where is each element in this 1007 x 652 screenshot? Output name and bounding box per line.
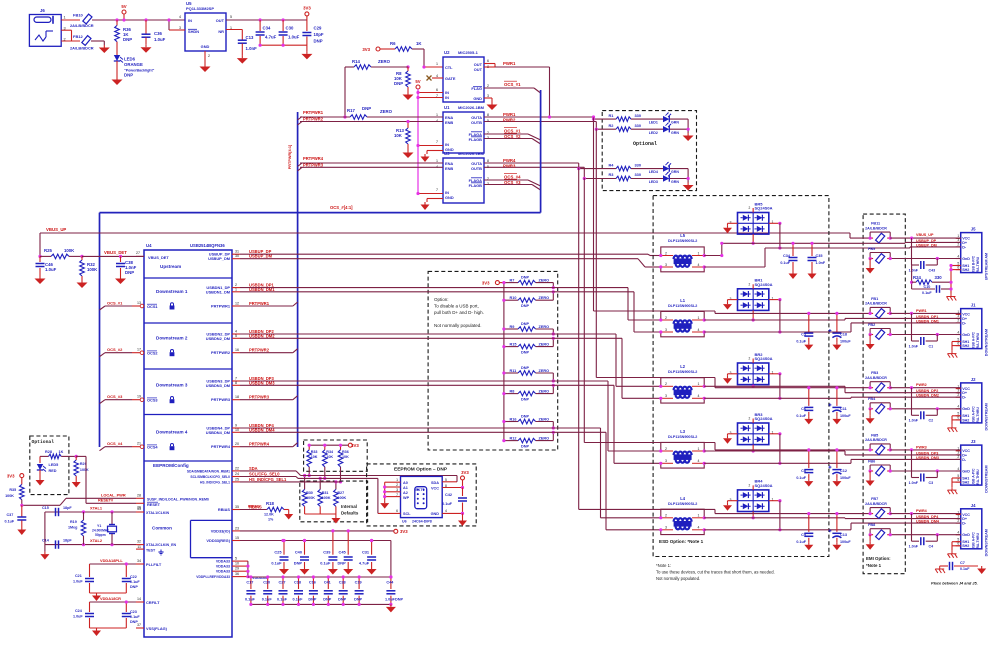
- wire PWR4 to VCC: [890, 512, 961, 515]
- junction C38: [119, 255, 122, 258]
- junction CTL: [406, 65, 425, 68]
- capacitor C39: [320, 529, 337, 566]
- hub pin 7 USBDN3_DP: [206, 376, 274, 384]
- svg-text:DNP: DNP: [125, 270, 134, 275]
- svg-text:11: 11: [137, 545, 141, 549]
- svg-text:R6: R6: [390, 41, 396, 46]
- svg-text:C41: C41: [324, 581, 331, 585]
- power 3V3 vdd33: [394, 529, 408, 534]
- svg-text:LED3: LED3: [649, 180, 658, 184]
- svg-text:L4: L4: [680, 496, 686, 501]
- svg-text:1.0nF: 1.0nF: [909, 419, 919, 423]
- wire D- row J2: [704, 397, 961, 398]
- svg-text:0.1uF: 0.1uF: [320, 561, 331, 566]
- svg-text:C45: C45: [339, 550, 347, 555]
- gnd rail 100K: [305, 514, 336, 516]
- hub pin 33 XTAL1: [136, 507, 169, 515]
- wire U3 OUTA PWR4: [484, 158, 579, 163]
- capacitor C30: [279, 20, 300, 45]
- wire R6 to CTL: [412, 49, 443, 67]
- wire U3 OUTB PWR3: [484, 163, 584, 168]
- ground U5: [200, 64, 211, 72]
- hub pin 34 PLLFILT: [136, 559, 162, 567]
- ground pll: [92, 593, 101, 601]
- svg-text:20: 20: [235, 442, 239, 446]
- svg-text:U4: U4: [146, 243, 152, 248]
- ferrite bead FB11 loop: [865, 222, 892, 243]
- svg-text:Place between J4 and J5.: Place between J4 and J5.: [931, 581, 978, 586]
- svg-text:L2: L2: [680, 364, 686, 369]
- svg-text:8: 8: [487, 113, 489, 117]
- bypass rail bottom: [251, 603, 391, 605]
- svg-text:FB12: FB12: [73, 34, 84, 39]
- ground C8: [804, 479, 813, 487]
- svg-text:10K: 10K: [342, 455, 349, 459]
- svg-text:J4: J4: [971, 503, 976, 508]
- svg-text:8: 8: [487, 159, 489, 163]
- hub pin 5 VDDA33a: [216, 557, 240, 564]
- svg-text:RA-THRU: RA-THRU: [976, 256, 980, 272]
- capacitor C13 100uF: [828, 512, 851, 544]
- ground C42: [458, 518, 467, 526]
- svg-text:10K: 10K: [394, 133, 403, 138]
- svg-text:DNP: DNP: [521, 275, 529, 279]
- svg-text:TEST: TEST: [146, 549, 156, 553]
- capacitor C44 bypass: [385, 575, 396, 606]
- svg-text:1.0nF: 1.0nF: [909, 268, 919, 272]
- svg-text:100uF: 100uF: [840, 476, 851, 480]
- svg-text:A2: A2: [403, 491, 408, 495]
- capacitor C46: [36, 256, 57, 276]
- inductor L5 DLP11SN900SL2: [659, 233, 706, 272]
- svg-text:OCS_#4: OCS_#4: [504, 175, 521, 180]
- svg-text:330: 330: [935, 275, 943, 280]
- svg-text:XTAL2: XTAL2: [90, 538, 103, 543]
- svg-text:GnD: GnD: [962, 333, 970, 337]
- svg-text:1: 1: [64, 16, 66, 20]
- svg-text:USB A-P/C: USB A-P/C: [972, 331, 976, 349]
- svg-text:Optional: Optional: [633, 141, 657, 147]
- svg-text:RA-THRU: RA-THRU: [976, 469, 980, 485]
- svg-text:R25: R25: [44, 248, 52, 253]
- wire D- row J4: [704, 523, 961, 530]
- ground TEST glyph: [158, 550, 163, 556]
- svg-text:0.1uF: 0.1uF: [796, 540, 806, 544]
- wire CRFILT: [90, 596, 137, 602]
- svg-text:LOCAL_PWR: LOCAL_PWR: [101, 493, 126, 498]
- wire IN-SHDN tie: [167, 18, 185, 30]
- svg-text:2: 2: [957, 319, 959, 323]
- svg-text:24C64-DIP8: 24C64-DIP8: [412, 520, 432, 524]
- svg-text:1: 1: [436, 159, 438, 163]
- junction R32: [80, 255, 83, 258]
- capacitor C11 100uF: [828, 386, 851, 418]
- bus entry PRTPWR2 hub: [240, 349, 298, 353]
- hub pin 24 SCL: [190, 472, 280, 480]
- wire PWR2 approach: [596, 378, 870, 388]
- svg-text:17: 17: [137, 348, 141, 352]
- ground C38: [115, 276, 126, 284]
- wire D- row J3: [704, 459, 961, 463]
- svg-text:2A/LB/BDCR: 2A/LB/BDCR: [865, 438, 887, 442]
- ground FB2: [866, 342, 875, 350]
- svg-text:16: 16: [235, 348, 239, 352]
- svg-text:2: 2: [749, 483, 751, 487]
- svg-text:28: 28: [137, 493, 141, 497]
- wire FB9 ground: [869, 259, 871, 266]
- capacitor C9: [796, 512, 813, 544]
- capacitor C44 extra DNP label: [395, 597, 403, 601]
- capacitor C20 bypass: [262, 575, 273, 606]
- svg-text:1: 1: [698, 447, 700, 451]
- svg-text:5: 5: [235, 334, 237, 338]
- hub pin 29 VDDA33c: [216, 567, 240, 574]
- capacitor C1: [909, 337, 934, 348]
- svg-text:100K: 100K: [306, 496, 315, 500]
- wire USBDN_DP1 route: [240, 288, 661, 320]
- connector J3: [956, 439, 989, 493]
- capacitor C31: [359, 539, 376, 567]
- resistor R27 100K: [334, 480, 347, 514]
- svg-text:OCS_#2: OCS_#2: [504, 134, 521, 139]
- wire U1 GND: [427, 151, 443, 155]
- svg-text:R1: R1: [609, 113, 615, 118]
- svg-text:2: 2: [749, 357, 751, 361]
- svg-text:R11: R11: [510, 369, 517, 373]
- svg-text:0.1uF: 0.1uF: [780, 261, 790, 265]
- svg-text:DNP: DNP: [294, 561, 303, 566]
- svg-text:3: 3: [730, 498, 732, 502]
- svg-text:ZERO: ZERO: [539, 417, 550, 421]
- svg-text:0.1uF: 0.1uF: [277, 597, 288, 601]
- svg-text:23: 23: [235, 526, 239, 530]
- power switch U1 MIC2026-1BM: [436, 105, 489, 153]
- wire PWR3 approach: [584, 443, 870, 450]
- svg-text:SQ24S0A: SQ24S0A: [755, 206, 773, 211]
- svg-text:R4: R4: [609, 162, 615, 167]
- capacitor C34: [256, 20, 277, 45]
- wire SKT1 SCL: [378, 478, 401, 513]
- wire PWR2 vertical: [595, 128, 597, 377]
- svg-text:0.1uF: 0.1uF: [5, 520, 15, 524]
- svg-text:C39: C39: [323, 550, 331, 555]
- wire XTAL1 row: [45, 506, 136, 513]
- svg-text:To disable a USB port,: To disable a USB port,: [434, 304, 479, 309]
- wire USBDN_DM2 route: [240, 338, 661, 398]
- svg-text:U2: U2: [444, 50, 450, 55]
- connector J1: [956, 303, 989, 357]
- svg-text:C34: C34: [263, 26, 271, 31]
- wire VBUS_UP: [40, 227, 850, 256]
- svg-text:OCS_#[4:1]: OCS_#[4:1]: [330, 205, 353, 210]
- svg-text:4: 4: [445, 509, 447, 513]
- wire BR3 ground: [723, 434, 738, 444]
- svg-text:Defaults: Defaults: [341, 511, 359, 516]
- svg-text:C21: C21: [75, 574, 82, 578]
- wire SKT1 SDA: [442, 476, 457, 482]
- svg-text:pull both D+ and D- high.: pull both D+ and D- high.: [434, 310, 484, 315]
- svg-text:2: 2: [749, 417, 751, 421]
- svg-text:Y1: Y1: [97, 524, 101, 528]
- svg-text:A0: A0: [403, 481, 408, 485]
- wire PWR4 approach: [579, 509, 870, 513]
- svg-text:USBDN2_DM: USBDN2_DM: [206, 336, 230, 341]
- ferrite bead FB6 loop: [868, 459, 892, 476]
- svg-text:36: 36: [235, 572, 239, 576]
- svg-text:3: 3: [730, 371, 732, 375]
- ESD array BR3 SQ24S0A: [730, 412, 774, 445]
- svg-text:18pF: 18pF: [63, 506, 72, 510]
- wire PWR1 approach: [594, 311, 871, 313]
- ground C31: [367, 567, 377, 575]
- resistor R16: [502, 414, 555, 429]
- resistor R7: [502, 275, 555, 289]
- resistor R30 100K: [302, 474, 315, 514]
- svg-text:3: 3: [665, 526, 667, 530]
- svg-text:R27: R27: [337, 491, 344, 495]
- ferrite bead FB9 loop: [868, 247, 892, 264]
- wires SKT1 address pins: [383, 482, 400, 500]
- wire XTAL2 row: [45, 538, 136, 545]
- resistor R18 RBIAS: [240, 501, 289, 522]
- svg-text:3: 3: [957, 314, 959, 318]
- wire PWR1 to VCC: [890, 312, 961, 315]
- svg-text:R7: R7: [510, 278, 515, 282]
- svg-text:5: 5: [235, 557, 237, 561]
- svg-text:C44: C44: [386, 581, 394, 585]
- svg-text:RBIAS: RBIAS: [248, 505, 260, 509]
- capacitor C6: [796, 386, 813, 418]
- hub pin 21 OCS4: [132, 442, 174, 451]
- svg-text:IN: IN: [445, 95, 449, 100]
- wire BR4 ground: [723, 501, 738, 511]
- capacitor C5: [796, 312, 813, 344]
- ground C40: [300, 567, 310, 575]
- capacitor C41 bypass: [323, 575, 333, 606]
- wire GnD net J5: [890, 238, 961, 265]
- EEPROM option dashed box: [367, 464, 477, 526]
- svg-text:C18: C18: [840, 333, 847, 337]
- ESD array BR5 SQ24S0A: [730, 201, 774, 234]
- ferrite bead FB10: [70, 13, 94, 29]
- svg-text:USB B-P/C: USB B-P/C: [972, 255, 976, 273]
- svg-text:2: 2: [665, 251, 667, 255]
- svg-text:PWR2: PWR2: [503, 118, 516, 123]
- hub pin 36 VDDPLLREF: [196, 572, 240, 579]
- wire FB12 to gnd rail: [91, 41, 104, 45]
- svg-text:C1: C1: [929, 344, 934, 348]
- ESD array BR4 SQ24S0A: [730, 479, 774, 512]
- hub pin 1 USBDN1_DM: [206, 287, 275, 295]
- svg-text:RA-THRU: RA-THRU: [976, 332, 980, 348]
- svg-text:DLP11SN900SL2: DLP11SN900SL2: [668, 502, 697, 506]
- svg-text:DNP: DNP: [130, 585, 138, 589]
- svg-text:1: 1: [698, 251, 700, 255]
- svg-text:1Meg: 1Meg: [68, 526, 77, 530]
- resistor R3 + LED3: [609, 172, 689, 184]
- svg-text:33: 33: [137, 507, 141, 511]
- svg-text:MIC2026-1BM: MIC2026-1BM: [458, 151, 485, 156]
- svg-text:7: 7: [436, 188, 438, 192]
- wire PWR2 jog: [595, 122, 616, 131]
- svg-text:U1: U1: [444, 105, 450, 110]
- hub pin 10 VDDA33b: [216, 562, 240, 569]
- svg-text:PRTPWR1: PRTPWR1: [211, 304, 231, 309]
- wire GnD net J3: [890, 450, 961, 478]
- wire PRTPWR4 row: [300, 156, 443, 163]
- chassis C7: [935, 566, 945, 573]
- svg-text:ENB: ENB: [445, 120, 453, 125]
- bus PRTPWR[4:1]: [288, 112, 298, 447]
- svg-text:J1: J1: [971, 303, 976, 308]
- svg-text:25: 25: [235, 477, 239, 481]
- svg-text:1.0nF: 1.0nF: [909, 481, 919, 485]
- svg-text:PLLFILT: PLLFILT: [146, 562, 162, 567]
- svg-text:VDDA33: VDDA33: [216, 570, 230, 574]
- svg-text:6: 6: [487, 59, 489, 63]
- svg-text:USBDN3_DM: USBDN3_DM: [206, 383, 230, 388]
- svg-text:USB A-P/C: USB A-P/C: [972, 406, 976, 424]
- svg-text:10K: 10K: [326, 455, 333, 459]
- svg-text:2: 2: [957, 243, 959, 247]
- svg-text:C28: C28: [339, 581, 346, 585]
- svg-text:100uF: 100uF: [840, 414, 851, 418]
- svg-text:0.1uF: 0.1uF: [796, 414, 806, 418]
- wire USBDN_DP2 route: [240, 334, 661, 386]
- svg-text:Not normally populated.: Not normally populated.: [656, 576, 700, 581]
- wire BR2 pin2 stub: [752, 385, 755, 388]
- labels J3 nets: [916, 445, 939, 460]
- ground C18: [832, 342, 841, 350]
- svg-text:ZERO: ZERO: [539, 436, 550, 440]
- wire BR2 pin1 stub: [769, 372, 782, 400]
- capacitor C16 bypass: [308, 575, 318, 606]
- capacitor C43: [909, 261, 935, 272]
- svg-text:3: 3: [957, 238, 959, 242]
- svg-text:2: 2: [957, 519, 959, 523]
- svg-text:1: 1: [698, 316, 700, 320]
- wire D- row J1: [704, 323, 961, 332]
- svg-text:RA-THRU: RA-THRU: [976, 533, 980, 549]
- svg-text:R33: R33: [311, 450, 318, 454]
- svg-text:HS_IND/CFG_SEL1: HS_IND/CFG_SEL1: [249, 477, 287, 482]
- wire SDA row: [240, 471, 457, 476]
- svg-text:ZERO: ZERO: [539, 342, 550, 346]
- svg-text:2A/LB/BDCR: 2A/LB/BDCR: [865, 376, 887, 380]
- svg-text:DLP11SN900SL2: DLP11SN900SL2: [668, 304, 697, 308]
- resistor R10: [502, 290, 555, 308]
- svg-text:100K: 100K: [87, 267, 98, 272]
- svg-text:C16: C16: [309, 581, 316, 585]
- power 3V3 10K: [309, 443, 359, 448]
- ground J6 return: [99, 45, 110, 53]
- svg-text:GRN: GRN: [671, 121, 679, 125]
- hub pin 5 USBDN2_DM: [206, 333, 275, 341]
- svg-text:GnD: GnD: [962, 257, 970, 261]
- svg-text:C13: C13: [246, 35, 254, 40]
- svg-text:DNP: DNP: [521, 351, 529, 355]
- svg-text:D+: D+: [962, 241, 967, 245]
- wire LED3/4 gnd: [687, 169, 690, 183]
- hub pin 11 TEST: [136, 545, 156, 553]
- capacitor C37: [5, 505, 27, 527]
- svg-text:OCS_#1: OCS_#1: [504, 129, 521, 134]
- wire BR3 pin1 stub: [769, 432, 782, 465]
- svg-text:2: 2: [749, 206, 751, 210]
- svg-text:15: 15: [235, 536, 239, 540]
- resistor R33 10K: [307, 444, 318, 476]
- svg-text:EEPROM Option – DNP: EEPROM Option – DNP: [394, 467, 448, 473]
- svg-text:PWR1: PWR1: [503, 112, 516, 117]
- svg-text:C2: C2: [929, 419, 934, 423]
- svg-text:OCS_#1: OCS_#1: [504, 82, 521, 87]
- junction C34: [259, 18, 262, 21]
- svg-text:PQ1L333M2SP: PQ1L333M2SP: [186, 6, 214, 11]
- svg-text:PRTPWR4: PRTPWR4: [303, 156, 324, 161]
- svg-text:R35: R35: [9, 488, 16, 492]
- svg-text:EMI Option:: EMI Option:: [866, 556, 891, 561]
- svg-text:L5: L5: [680, 233, 686, 238]
- svg-text:LED6: LED6: [124, 57, 136, 62]
- wire BR1 pin2 stub: [752, 310, 755, 321]
- svg-text:Common: Common: [152, 526, 172, 531]
- svg-text:CRFILT: CRFILT: [146, 600, 160, 605]
- svg-text:C5: C5: [801, 333, 806, 337]
- svg-text:CTL: CTL: [445, 65, 453, 70]
- capacitor C36: [142, 20, 166, 45]
- power switch U2 MIC2505-1: [436, 50, 489, 102]
- wire FB10 to U5 IN: [92, 19, 185, 21]
- capacitor C18 100uF: [828, 312, 851, 344]
- svg-text:OCS2: OCS2: [147, 351, 158, 356]
- svg-text:C10: C10: [924, 285, 931, 289]
- hub section labels: [148, 255, 189, 531]
- svg-text:1.0uF: 1.0uF: [288, 35, 300, 40]
- svg-text:C20: C20: [263, 581, 270, 585]
- capacitor C29: [302, 20, 324, 51]
- svg-text:1.0uF: 1.0uF: [385, 597, 396, 601]
- svg-text:C31: C31: [362, 550, 370, 555]
- svg-text:Downstream 1: Downstream 1: [156, 289, 188, 294]
- svg-text:Downstream 4: Downstream 4: [156, 430, 188, 435]
- svg-text:0.1uF: 0.1uF: [442, 502, 453, 506]
- resistor R13: [394, 120, 410, 150]
- hub pin 37 VSS: [136, 623, 168, 631]
- svg-text:USB A-P/C: USB A-P/C: [972, 532, 976, 550]
- hub pin 31 USBUP_DP: [209, 249, 272, 257]
- svg-text:To use these devices, cut the: To use these devices, cut the traces tha…: [656, 570, 775, 575]
- bus entry OCS#3: [100, 394, 133, 404]
- svg-text:6: 6: [396, 509, 398, 513]
- svg-text:VBUS_UP: VBUS_UP: [46, 227, 66, 232]
- svg-text:3V3: 3V3: [400, 529, 408, 534]
- svg-text:C9: C9: [801, 533, 806, 537]
- resistor R19: [68, 510, 86, 546]
- svg-text:HS_IND/CFG_SEL1: HS_IND/CFG_SEL1: [200, 480, 230, 484]
- svg-text:DNP: DNP: [394, 81, 403, 86]
- svg-text:OCS_#1: OCS_#1: [107, 301, 123, 306]
- capacitor C2: [909, 411, 934, 422]
- resistor R12: [502, 431, 555, 449]
- svg-text:Option:: Option:: [434, 297, 449, 302]
- svg-text:10pF: 10pF: [314, 32, 324, 37]
- wire BR5 pin2 stub: [752, 234, 755, 245]
- wire shield J4: [952, 542, 961, 551]
- svg-text:OUT: OUT: [474, 67, 483, 72]
- svg-text:MIC2505-1: MIC2505-1: [458, 50, 479, 55]
- svg-text:3: 3: [179, 26, 181, 30]
- resistor R6: [390, 41, 422, 51]
